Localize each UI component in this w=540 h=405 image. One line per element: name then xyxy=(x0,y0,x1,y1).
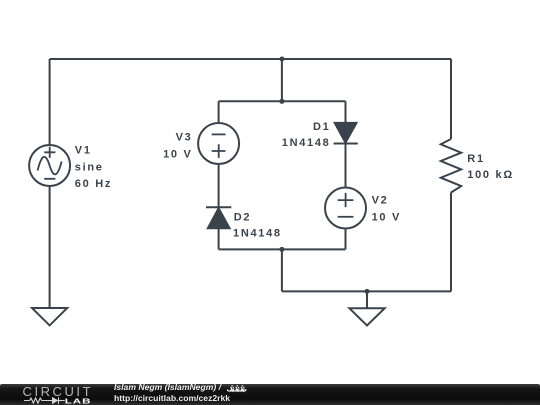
wire rail2 xyxy=(219,100,346,102)
wire V1 top lead xyxy=(49,59,51,145)
diode D2 xyxy=(206,207,231,228)
wire rail4 xyxy=(282,290,451,292)
node A junction dot (top rail) xyxy=(279,57,284,62)
footer bar xyxy=(0,384,540,405)
CircuitLab logo xyxy=(22,385,96,405)
wire top rail xyxy=(50,58,451,60)
svg-text:D1: D1 xyxy=(313,121,330,133)
voltage source V1 (sine) xyxy=(29,145,70,186)
svg-text:10 V: 10 V xyxy=(372,212,401,224)
svg-text:V3: V3 xyxy=(176,131,193,143)
wire V3 top lead xyxy=(218,101,220,123)
voltage source V2 xyxy=(325,188,366,229)
wire V2 bottom lead xyxy=(345,228,347,249)
svg-text:R1: R1 xyxy=(467,153,484,165)
wire D1-to-V2 xyxy=(345,144,347,188)
wire ground stub right xyxy=(366,291,368,308)
footer attribution line 1 xyxy=(114,383,221,392)
label R1 100 kOhm xyxy=(467,153,514,181)
voltage source V3 xyxy=(198,123,239,164)
diode D1 xyxy=(334,123,358,144)
svg-text:10 V: 10 V xyxy=(163,148,192,160)
footer url line 2 xyxy=(114,394,230,403)
wire V1 bottom lead xyxy=(49,186,51,308)
svg-text:sine: sine xyxy=(75,161,104,173)
ground right xyxy=(349,308,384,325)
label V1 sine 60 Hz xyxy=(75,145,112,190)
label V2 10 V xyxy=(372,195,401,224)
svg-text:100 kΩ: 100 kΩ xyxy=(467,169,514,181)
wire rail3 xyxy=(219,248,346,250)
wire node-to-rail2 vertical xyxy=(281,59,283,101)
ground left xyxy=(32,308,67,325)
svg-text:LAB: LAB xyxy=(65,397,92,405)
footer arabic glyphs xyxy=(227,384,247,393)
label V3 10 V xyxy=(163,131,192,160)
svg-text:V1: V1 xyxy=(75,145,92,157)
resistor R1 xyxy=(441,139,461,193)
svg-text:1N4148: 1N4148 xyxy=(233,228,282,240)
label D2 1N4148 xyxy=(233,211,282,239)
wire R1 top lead xyxy=(450,59,452,139)
svg-text:V2: V2 xyxy=(372,195,389,207)
svg-text:60 Hz: 60 Hz xyxy=(75,178,112,190)
node GND junction dot (rail4) xyxy=(365,289,370,294)
node C junction dot (rail3) xyxy=(279,247,284,252)
label D1 1N4148 xyxy=(282,121,331,149)
wire D2-to-rail3 xyxy=(218,229,220,250)
wire rail3-to-rail4 vertical xyxy=(281,249,283,291)
wire R1 bottom lead xyxy=(450,193,452,292)
wire D1 top lead xyxy=(345,101,347,122)
wire V3-to-D2 xyxy=(218,164,220,207)
svg-text:1N4148: 1N4148 xyxy=(282,137,331,149)
svg-text:D2: D2 xyxy=(234,211,251,223)
node B junction dot (rail2) xyxy=(279,99,284,104)
